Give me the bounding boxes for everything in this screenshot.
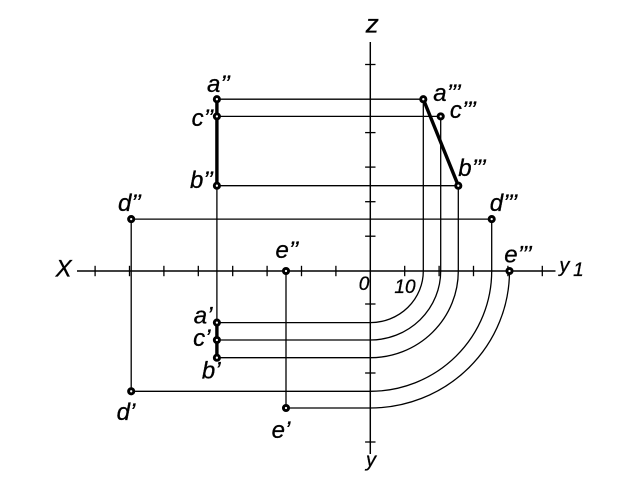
svg-text:c’’: c’’ (192, 105, 214, 132)
point a''' (421, 97, 426, 102)
wire vertical c''' to axis (440, 116, 442, 271)
svg-text:c’: c’ (193, 325, 211, 352)
wire e' to axis horizontal (286, 407, 370, 409)
svg-text:0: 0 (359, 274, 370, 295)
svg-text:y: y (364, 450, 377, 472)
arc transfer d (370, 271, 491, 391)
arc transfer a (370, 271, 423, 323)
segment a''-b'' thick (215, 99, 218, 186)
wire d''-d''' horizontal (131, 218, 492, 220)
point b'' (214, 183, 219, 188)
X axis (77, 270, 556, 272)
segment a'''-b''' thick (423, 99, 458, 186)
svg-text:z: z (365, 9, 379, 39)
wire b''-b''' horizontal (217, 185, 458, 187)
point c''' (438, 114, 443, 119)
wire vertical d''-d' column (130, 219, 132, 391)
arc transfer b (370, 271, 458, 358)
svg-text:d’’: d’’ (118, 190, 142, 217)
svg-text:y: y (557, 255, 570, 277)
point c'' (214, 114, 219, 119)
wire vertical a''' to axis (422, 99, 424, 271)
svg-text:d’’’: d’’’ (490, 190, 518, 217)
point a' (214, 320, 219, 325)
svg-text:e’’’: e’’’ (504, 242, 532, 269)
wire c' to axis horizontal (217, 339, 370, 341)
wire vertical e''-e' column (285, 271, 287, 408)
arc transfer c (370, 271, 440, 340)
svg-text:b’: b’ (202, 358, 221, 385)
point d' (129, 389, 134, 394)
wire a' to axis horizontal (217, 322, 370, 324)
wire d' to axis horizontal (131, 390, 370, 392)
point d''' (489, 217, 494, 222)
svg-text:d’: d’ (117, 399, 136, 426)
svg-text:X: X (55, 256, 73, 283)
svg-text:10: 10 (394, 277, 416, 298)
wire a''-a''' horizontal (217, 98, 423, 100)
wire vertical d''' to axis (491, 219, 493, 271)
svg-text:c’’’: c’’’ (450, 97, 477, 124)
svg-text:b’’’: b’’’ (458, 155, 486, 182)
point b''' (456, 183, 461, 188)
wire c''-c''' horizontal (217, 115, 441, 117)
point a'' (214, 97, 219, 102)
Z axis (369, 42, 371, 454)
svg-text:b’’: b’’ (190, 167, 214, 194)
wire b' to axis horizontal (217, 357, 370, 359)
arc transfer e (370, 271, 509, 408)
y1 axis right ticks (405, 266, 543, 276)
svg-text:e’: e’ (272, 417, 291, 444)
svg-text:1: 1 (573, 260, 584, 281)
point d'' (129, 217, 134, 222)
y axis ticks (below origin) (365, 304, 375, 442)
point e'' (283, 268, 288, 273)
segment a'-b' thick (215, 323, 218, 358)
point b' (214, 355, 219, 360)
point e''' (507, 268, 512, 273)
wire vertical a''-b' column (216, 99, 218, 358)
point e' (283, 405, 288, 410)
wire vertical b''' to axis (457, 186, 459, 271)
X axis left ticks (95, 266, 336, 276)
point c' (214, 337, 219, 342)
svg-text:a’’: a’’ (207, 71, 231, 98)
svg-text:e’’: e’’ (275, 237, 299, 264)
Z axis ticks (365, 65, 375, 237)
